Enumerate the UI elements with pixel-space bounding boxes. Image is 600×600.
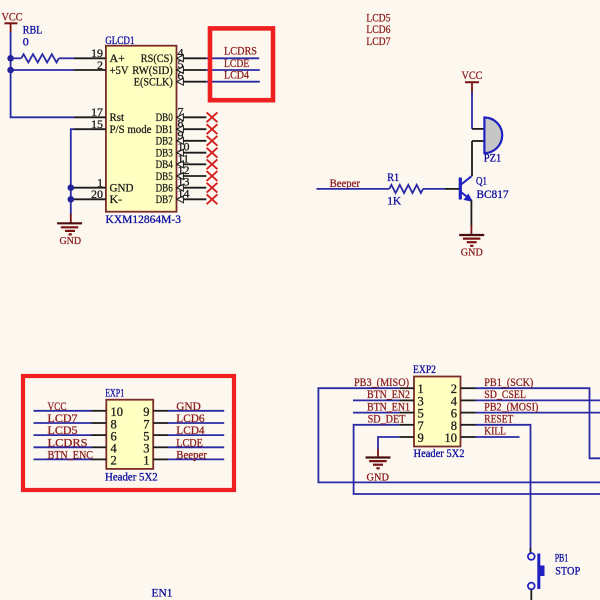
wire LCD4: [206, 81, 259, 83]
svg-text:Header 5X2: Header 5X2: [414, 446, 465, 460]
wire VCC to piezo: [471, 92, 473, 129]
svg-text:R1: R1: [387, 170, 399, 184]
svg-text:Beeper: Beeper: [330, 176, 360, 190]
svg-text:Beeper: Beeper: [176, 447, 207, 461]
no-connect X on DB1: [207, 124, 218, 134]
wire PB1_(SCK) routed right: [476, 388, 600, 458]
svg-text:EXP2: EXP2: [413, 362, 436, 376]
svg-text:2: 2: [97, 58, 103, 72]
wire net VCC: [34, 410, 92, 412]
pin 12 (DB5): [156, 163, 207, 183]
transistor Q1 BC817: [445, 174, 509, 201]
EXP1 pin 7 (right): [143, 417, 168, 431]
svg-text:EN1: EN1: [152, 585, 173, 599]
svg-text:SD_DET: SD_DET: [368, 412, 406, 426]
no-connect X on DB2: [207, 136, 218, 146]
svg-text:BC817: BC817: [477, 187, 509, 201]
EXP1 pin 9 (right): [143, 405, 168, 419]
wire PB2_(MOSI) to right edge: [476, 412, 600, 414]
wire net LCD7: [34, 422, 92, 424]
ground symbol GND (EXP2): [366, 449, 391, 483]
svg-text:14: 14: [178, 186, 190, 200]
wire SD_DET routed to lower bus: [354, 425, 600, 494]
pushbutton PB1 STOP: [528, 548, 581, 589]
red highlight box around LCDRS/LCDE/LCD4: [210, 28, 273, 100]
pin 5 (RW(SID)): [132, 57, 206, 77]
EXP2 pin 10 (right): [445, 431, 476, 445]
svg-text:1K: 1K: [387, 193, 401, 207]
EXP2 pin 5 (left): [399, 407, 423, 421]
wire PB3_(MISO) routed to lower bus: [318, 388, 600, 482]
no-connect X on DB5: [207, 171, 218, 181]
svg-text:KXM12864M-3: KXM12864M-3: [106, 212, 182, 226]
resistor R1 1K: [387, 170, 445, 208]
pin 10 (DB3): [156, 140, 207, 160]
wire net LCDE: [168, 446, 224, 448]
svg-text:6: 6: [178, 69, 184, 83]
junction dot at resistor tap: [7, 55, 14, 62]
wire net Beeper: [168, 458, 224, 460]
wire +5V tap to pin 2: [11, 69, 74, 71]
EXP1 pin 10 (left): [92, 405, 124, 419]
EXP1 pin 5 (right): [143, 429, 168, 443]
svg-text:P/S mode: P/S mode: [110, 122, 152, 136]
wire BTN_EN2: [353, 399, 399, 401]
no-connect X on DB7: [207, 194, 218, 204]
svg-text:LCD7: LCD7: [366, 34, 390, 48]
wire pin20 K-: [71, 198, 74, 200]
wire net LCD6: [168, 422, 224, 424]
EXP2 pin 6 (right): [451, 407, 476, 421]
svg-text:0: 0: [23, 35, 29, 49]
power port VCC (beeper): [462, 68, 483, 93]
component GLCD1 KXM12864M-3 body: [105, 33, 181, 226]
pin 4 (RS(CS)): [141, 45, 207, 65]
wire VCC to Rst pin: [11, 32, 74, 117]
svg-text:BTN_ENC: BTN_ENC: [48, 447, 94, 461]
pin 9 (DB2): [156, 128, 207, 148]
svg-text:9: 9: [418, 431, 424, 445]
red highlight box around EXP1: [23, 376, 234, 490]
svg-text:2: 2: [111, 454, 117, 468]
wire piezo to collector: [471, 141, 473, 176]
svg-text:E(SCLK): E(SCLK): [134, 75, 173, 89]
wire net LCDRS: [34, 446, 92, 448]
svg-text:PZ1: PZ1: [484, 151, 502, 165]
wire emitter to ground: [470, 200, 472, 226]
svg-text:EXP1: EXP1: [105, 385, 124, 399]
junction dot at +5V tap: [7, 67, 14, 74]
pin 19 (A+): [74, 46, 125, 65]
EXP2 pin 7 (left): [399, 419, 423, 433]
wire net LCD5: [34, 434, 92, 436]
wire LCDE: [206, 69, 259, 71]
EXP1 pin 6 (left): [92, 429, 117, 443]
wire pin1 GND: [71, 187, 74, 189]
svg-text:PB1: PB1: [555, 550, 569, 564]
EXP2 pin 2 (right): [451, 382, 476, 396]
pin 1 (GND): [74, 176, 134, 195]
svg-text:GND: GND: [367, 471, 390, 483]
pin 11 (DB4): [156, 151, 207, 171]
svg-text:KILL: KILL: [484, 424, 506, 438]
pin 13 (DB6): [156, 175, 207, 195]
wire KILL: [476, 436, 520, 438]
wire pin9 to ground: [378, 437, 399, 450]
svg-text:VCC: VCC: [462, 68, 483, 82]
EXP2 pin 3 (left): [399, 394, 423, 408]
svg-text:Q1: Q1: [476, 174, 487, 188]
pin 8 (DB1): [156, 116, 207, 136]
pin 20 (K-): [74, 187, 122, 206]
ground symbol GND (beeper): [459, 225, 484, 259]
EXP2 pin 9 (left): [399, 431, 423, 445]
no-connect X on DB3: [207, 148, 218, 158]
EXP1 pin 1 (right): [143, 454, 168, 468]
pin 14 (DB7): [156, 186, 207, 206]
svg-text:GND: GND: [461, 247, 483, 259]
EXP1 pin 3 (right): [143, 442, 168, 456]
EXP1 pin 8 (left): [92, 417, 117, 431]
wire BTN_EN1: [353, 412, 399, 414]
no-connect X on DB4: [207, 159, 218, 169]
pin 15 (P/S mode): [74, 117, 152, 136]
no-connect X on DB0: [207, 112, 218, 122]
svg-text:GLCD1: GLCD1: [105, 33, 134, 47]
resistor RBL 0: [11, 23, 74, 63]
pin 6 (E(SCLK)): [134, 69, 207, 89]
svg-text:GND: GND: [60, 235, 82, 247]
EXP2 pin 1 (left): [399, 382, 423, 396]
junction dot GND pin: [68, 184, 75, 191]
no-connect X on DB6: [207, 183, 218, 193]
svg-text:LCD4: LCD4: [224, 67, 249, 81]
svg-text:VCC: VCC: [2, 9, 23, 23]
wire P/S mode to GND net: [71, 129, 74, 215]
junction dot K- pin: [68, 196, 75, 203]
wire below PB1: [530, 590, 532, 600]
connector EXP1 Header 5X2 body: [105, 385, 158, 483]
svg-text:1: 1: [143, 454, 149, 468]
svg-text:20: 20: [91, 187, 103, 201]
EXP1 pin 2 (left): [92, 454, 117, 468]
ground symbol GND (GLCD): [57, 214, 82, 247]
svg-text:K-: K-: [110, 192, 123, 206]
wire SD_CSEL to right edge: [476, 399, 600, 401]
wire net GND: [168, 410, 224, 412]
wire net LCD4: [168, 434, 224, 436]
svg-text:STOP: STOP: [555, 564, 580, 578]
piezo buzzer PZ1: [472, 118, 502, 165]
pin 2 (+5V): [74, 58, 129, 77]
EXP2 pin 4 (right): [451, 394, 476, 408]
pin 7 (DB0): [156, 104, 207, 124]
wire RESET routed to button: [476, 425, 531, 549]
wire net BTN_ENC: [34, 458, 92, 460]
wire LCDRS: [206, 57, 259, 59]
EXP1 pin 4 (left): [92, 442, 118, 456]
wire Beeper to R1: [317, 188, 390, 190]
connector EXP2 Header 5X2 body: [413, 362, 465, 460]
svg-text:Header 5X2: Header 5X2: [105, 470, 158, 484]
power port VCC (top-left): [2, 9, 23, 33]
svg-text:10: 10: [445, 431, 458, 445]
svg-text:+5V: +5V: [110, 63, 129, 77]
svg-text:DB7: DB7: [156, 192, 173, 206]
EXP2 pin 8 (right): [451, 419, 476, 433]
pin 17 (Rst): [74, 105, 125, 124]
svg-text:15: 15: [91, 117, 103, 131]
